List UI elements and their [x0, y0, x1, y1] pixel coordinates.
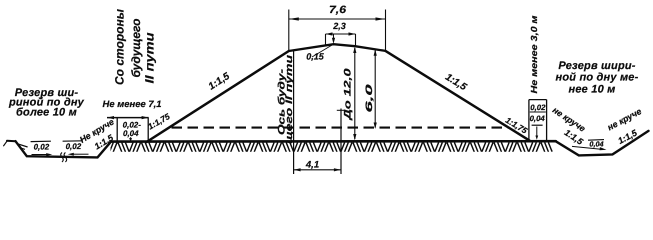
svg-text:ной по дну ме-: ной по дну ме-	[556, 72, 639, 84]
svg-text:0,02: 0,02	[66, 142, 82, 151]
svg-text:0,04: 0,04	[589, 139, 603, 148]
svg-text:7,6: 7,6	[329, 4, 346, 16]
svg-text:0,02: 0,02	[530, 103, 546, 112]
svg-text:6,0: 6,0	[364, 83, 374, 113]
svg-text:Резерв шири-: Резерв шири-	[558, 60, 635, 72]
svg-text:II пути: II пути	[143, 32, 157, 84]
svg-text:0,04: 0,04	[123, 129, 139, 138]
svg-text:0,02-: 0,02-	[123, 120, 142, 129]
svg-text:щего II пути: щего II пути	[284, 55, 295, 144]
svg-text:нее 10 м: нее 10 м	[569, 83, 616, 95]
svg-text:0,04: 0,04	[530, 114, 546, 123]
svg-text:Не менее 7,1: Не менее 7,1	[103, 99, 162, 109]
svg-text:Не менее 3,0 м: Не менее 3,0 м	[529, 15, 539, 94]
svg-text:Со стороны: Со стороны	[113, 8, 127, 85]
svg-text:будущего: будущего	[129, 19, 143, 78]
svg-text:более 10 м: более 10 м	[16, 106, 77, 118]
svg-text:4,1: 4,1	[305, 160, 319, 171]
svg-text:0,15: 0,15	[306, 52, 325, 62]
svg-text:До 12,0: До 12,0	[343, 67, 354, 121]
svg-text:2,3: 2,3	[332, 21, 346, 31]
svg-text:0,02: 0,02	[34, 142, 50, 151]
